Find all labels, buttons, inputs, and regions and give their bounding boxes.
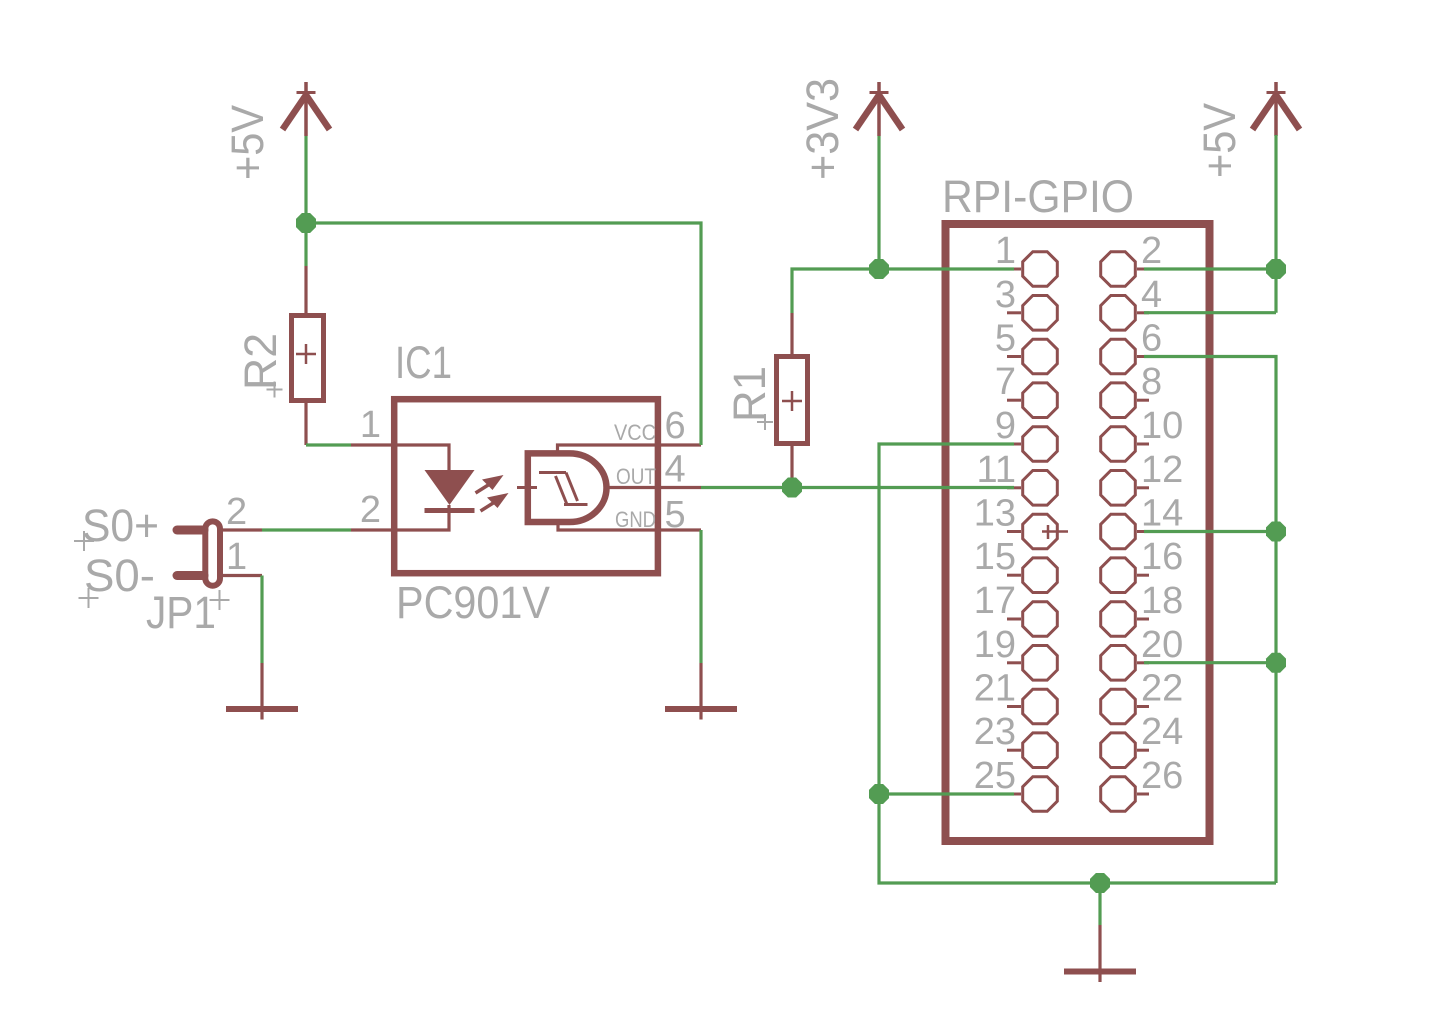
- svg-text:+5V: +5V: [1194, 103, 1245, 178]
- svg-text:1: 1: [360, 404, 381, 446]
- svg-text:13: 13: [974, 493, 1016, 535]
- IC1 LED cathode path: [394, 505, 449, 530]
- IC1 detector outline: [528, 453, 607, 522]
- svg-text:R2: R2: [235, 333, 286, 390]
- wire +5V to RPI pin4: [1144, 311, 1276, 314]
- IC1 photon arrow 2: [481, 493, 509, 511]
- junction +5V/pin2: [1266, 259, 1286, 279]
- wire +3V3 drop: [877, 136, 880, 269]
- junction ground bus: [1090, 873, 1110, 893]
- RPI-GPIO pin 12 pad: [1101, 471, 1149, 506]
- wire JP1 pin2 to IC1 pin2: [262, 528, 351, 531]
- svg-text:26: 26: [1141, 755, 1183, 797]
- svg-text:8: 8: [1141, 361, 1162, 403]
- wire RPI pin9 net: [879, 444, 1014, 794]
- svg-text:14: 14: [1141, 493, 1183, 535]
- junction OUT/R1: [782, 478, 802, 498]
- supply +3V3: [856, 82, 903, 136]
- wire +5V left drop: [304, 136, 307, 223]
- svg-text:18: 18: [1141, 580, 1183, 622]
- IC1 LED triangle: [425, 470, 475, 505]
- RPI-GPIO pin 1 pad: [1007, 252, 1057, 287]
- wire junction to R2: [304, 223, 307, 266]
- supply +5V (right): [1253, 82, 1300, 136]
- svg-text:15: 15: [974, 536, 1016, 578]
- junction +3V3: [869, 259, 889, 279]
- IC1 detector input tick: [517, 486, 537, 489]
- supply +5V (left): [283, 82, 330, 136]
- wire IC1 GND to ground: [699, 530, 702, 663]
- RPI-GPIO pin 24 pad: [1101, 733, 1149, 768]
- svg-text:OUT: OUT: [616, 464, 656, 489]
- svg-text:4: 4: [665, 449, 686, 491]
- svg-text:2: 2: [226, 491, 247, 533]
- RPI-GPIO pin 21 pad: [1007, 689, 1057, 724]
- svg-text:PC901V: PC901V: [396, 577, 550, 628]
- origin cross RPI-GPIO (pin13): [1042, 525, 1068, 539]
- origin cross JP1: [210, 590, 230, 610]
- wire RPI pin25 net: [879, 792, 1014, 795]
- IC1 pin 5 GND: [658, 528, 701, 531]
- opto-isolator IC1 body: [394, 399, 658, 573]
- svg-text:22: 22: [1141, 668, 1183, 710]
- RPI-GPIO pin 19 pad: [1007, 646, 1057, 681]
- svg-text:+3V3: +3V3: [797, 78, 848, 180]
- svg-text:IC1: IC1: [395, 337, 452, 388]
- junction pin14: [1266, 522, 1286, 542]
- ground GND2 (IC1): [665, 663, 737, 720]
- IC1 VCC inner link: [558, 445, 659, 454]
- svg-text:6: 6: [665, 405, 686, 447]
- IC1 pin 2: [351, 528, 394, 531]
- wire ground drop: [1098, 883, 1101, 925]
- svg-text:R1: R1: [724, 366, 775, 422]
- resistor R1: [777, 313, 808, 488]
- svg-text:11: 11: [977, 449, 1016, 491]
- svg-text:19: 19: [974, 624, 1016, 666]
- origin cross S0-: [79, 588, 99, 608]
- IC1 LED cathode bar: [425, 508, 475, 513]
- svg-text:2: 2: [360, 489, 381, 531]
- IC1 photon arrow 1: [476, 475, 504, 493]
- svg-text:4: 4: [1141, 274, 1162, 316]
- svg-text:GND: GND: [615, 507, 656, 532]
- origin cross R2: [267, 382, 283, 398]
- RPI-GPIO pin 6 pad: [1101, 339, 1149, 374]
- RPI-GPIO pin 22 pad: [1101, 689, 1149, 724]
- svg-text:25: 25: [974, 755, 1016, 797]
- IC1 pin 1: [351, 443, 394, 446]
- svg-text:10: 10: [1141, 405, 1183, 447]
- ground GND1 (JP1): [226, 663, 298, 720]
- wire R1 top to +3V3 rail: [792, 269, 879, 313]
- RPI-GPIO pin 11 pad: [1007, 471, 1057, 506]
- wire JP1 pin1 to ground: [260, 576, 263, 664]
- svg-text:6: 6: [1141, 318, 1162, 360]
- svg-text:7: 7: [995, 361, 1016, 403]
- origin cross R1: [757, 414, 773, 430]
- RPI-GPIO pin 23 pad: [1007, 733, 1057, 768]
- svg-text:24: 24: [1141, 711, 1183, 753]
- RPI-GPIO pin 14 pad: [1101, 514, 1149, 549]
- RPI-GPIO pin 8 pad: [1101, 383, 1149, 418]
- IC1 detector hysteresis mark: [539, 473, 588, 505]
- svg-text:5: 5: [995, 318, 1016, 360]
- RPI-GPIO pin 26 pad: [1101, 777, 1149, 812]
- RPI-GPIO pin 5 pad: [1007, 339, 1057, 374]
- svg-text:JP1: JP1: [146, 587, 216, 638]
- svg-text:23: 23: [974, 711, 1016, 753]
- RPI-GPIO pin 16 pad: [1101, 558, 1149, 593]
- IC1 GND inner link: [558, 522, 658, 530]
- wire RPI pin6 net: [1144, 357, 1276, 884]
- IC1 pin 6 VCC: [658, 443, 701, 446]
- ground GND3 (RPI): [1064, 925, 1136, 982]
- wire OUT net to RPI pin11: [701, 486, 1014, 489]
- RPI-GPIO pin 3 pad: [1007, 296, 1057, 331]
- RPI-GPIO pin 10 pad: [1101, 427, 1149, 462]
- wire R2 to IC1 pin1: [306, 443, 351, 446]
- RPI-GPIO pin 2 pad: [1101, 252, 1149, 287]
- IC1 pin 4 OUT: [658, 486, 701, 489]
- junction pin9/pin25: [869, 784, 889, 804]
- IC1 OUT inner link: [606, 486, 658, 489]
- wire RPI pin2 to +5V: [1144, 267, 1276, 270]
- svg-text:12: 12: [1141, 449, 1183, 491]
- junction pin20: [1266, 653, 1286, 673]
- connector RPI-GPIO body: [946, 224, 1210, 841]
- RPI-GPIO pin 7 pad: [1007, 383, 1057, 418]
- svg-text:1: 1: [226, 536, 247, 578]
- svg-text:5: 5: [665, 494, 686, 536]
- svg-text:16: 16: [1141, 536, 1183, 578]
- svg-text:S0-: S0-: [84, 550, 155, 601]
- svg-text:RPI-GPIO: RPI-GPIO: [942, 171, 1134, 222]
- svg-text:+5V: +5V: [222, 105, 273, 180]
- RPI-GPIO pin 15 pad: [1007, 558, 1057, 593]
- RPI-GPIO pin 9 pad: [1007, 427, 1057, 462]
- wire ground bus: [879, 794, 1276, 883]
- svg-text:VCC: VCC: [614, 420, 656, 445]
- RPI-GPIO pin 20 pad: [1101, 646, 1149, 681]
- wire +5V right drop: [1274, 135, 1277, 313]
- wire RPI pin14 net: [1144, 530, 1276, 533]
- wire +3V3 to RPI pin1: [879, 267, 1014, 270]
- svg-text:S0+: S0+: [82, 500, 159, 551]
- IC1 LED anode path: [394, 445, 449, 470]
- svg-text:9: 9: [995, 405, 1016, 447]
- wire +5V rail to IC1 VCC: [306, 223, 701, 445]
- wire RPI pin20 net: [1144, 661, 1276, 664]
- RPI-GPIO pin 25 pad: [1007, 777, 1057, 812]
- origin cross S0+: [74, 531, 94, 551]
- svg-text:2: 2: [1141, 230, 1162, 272]
- junction +5V/R2: [296, 213, 316, 233]
- RPI-GPIO pin 18 pad: [1101, 602, 1149, 637]
- svg-text:3: 3: [995, 274, 1016, 316]
- resistor R2: [292, 266, 324, 445]
- svg-text:17: 17: [974, 580, 1016, 622]
- svg-text:20: 20: [1141, 624, 1183, 666]
- svg-text:21: 21: [974, 668, 1016, 710]
- RPI-GPIO pin 17 pad: [1007, 602, 1057, 637]
- RPI-GPIO pin 4 pad: [1101, 296, 1149, 331]
- RPI-GPIO pin 13 pad: [1007, 514, 1057, 549]
- svg-text:1: 1: [995, 230, 1016, 272]
- connector JP1: [177, 521, 262, 585]
